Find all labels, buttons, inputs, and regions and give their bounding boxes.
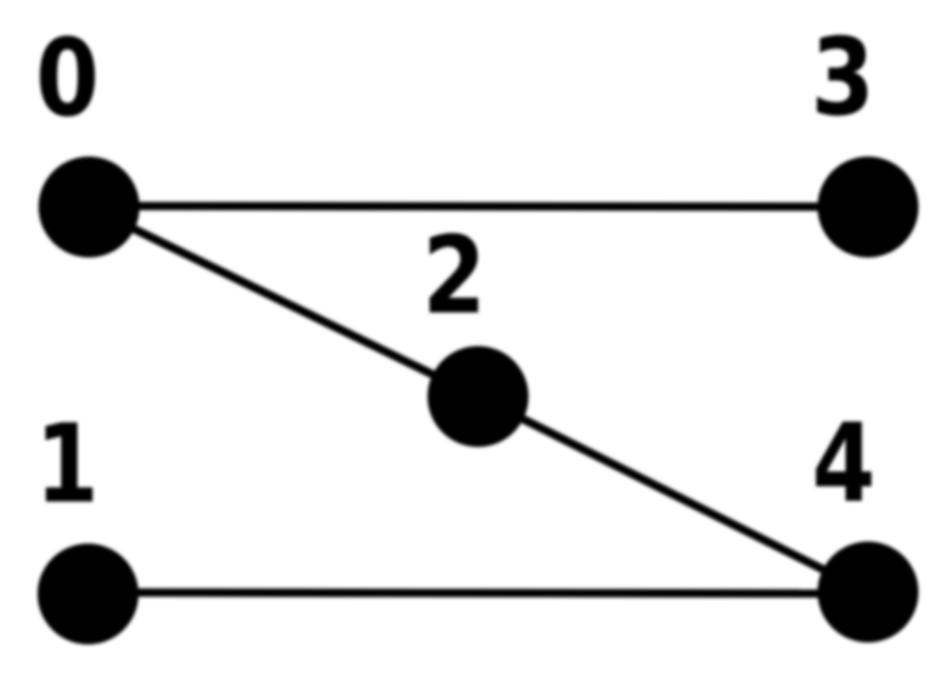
wire edge 0-2 — [89, 207, 478, 397]
label 2 — [430, 233, 478, 312]
wire edge 1-4 — [88, 593, 868, 594]
wire edge 0-3 — [89, 202, 868, 211]
label 1 — [46, 422, 93, 501]
label 4 — [816, 422, 871, 501]
node 2 — [428, 346, 529, 447]
node 1 — [38, 544, 139, 645]
node 0 — [39, 157, 140, 258]
node 3 — [818, 157, 919, 258]
label 0 — [40, 36, 95, 117]
node 4 — [818, 542, 919, 643]
wire edge 2-4 — [478, 397, 868, 593]
label 3 — [817, 35, 867, 116]
